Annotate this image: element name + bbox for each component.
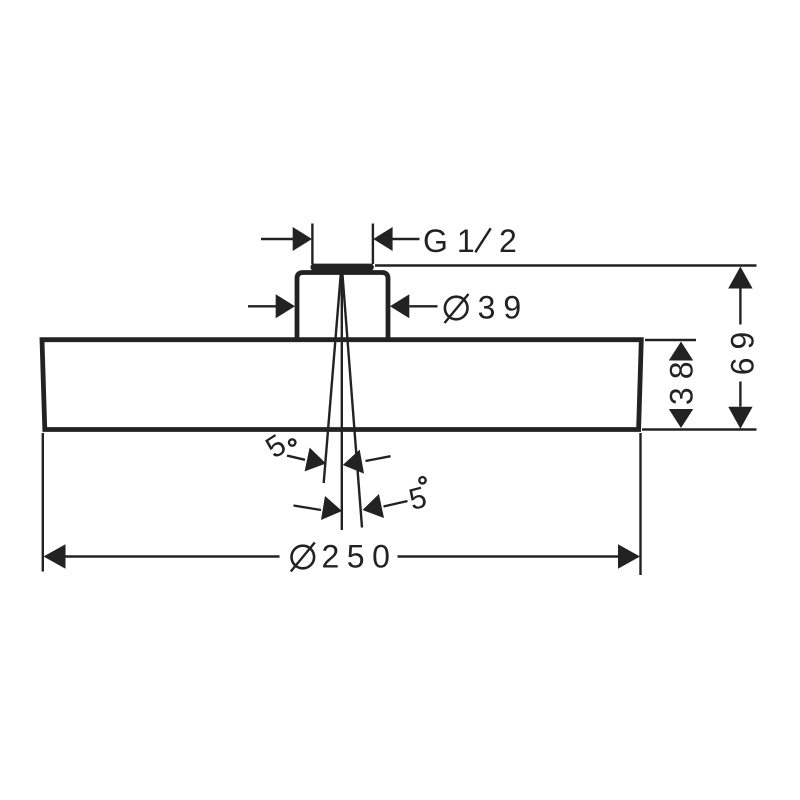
dia250 right arrow xyxy=(618,544,640,568)
svg-text:69: 69 xyxy=(724,324,760,376)
G1/2 right arrow xyxy=(373,227,392,251)
angle upper left arrow xyxy=(305,448,326,472)
label dia39: diameter symbol circle xyxy=(445,297,468,320)
angle lower left tail line xyxy=(294,506,322,511)
connector body xyxy=(297,273,388,342)
G1/2 right tail line xyxy=(393,238,420,240)
right spray line xyxy=(342,273,362,528)
69 top extension line xyxy=(375,264,757,266)
G1/2 left extension line xyxy=(311,224,313,265)
angle upper right tail line xyxy=(366,456,391,461)
svg-text:G1: G1 xyxy=(423,223,484,259)
69 bottom arrow xyxy=(728,407,752,429)
connector cap xyxy=(311,264,374,271)
G1/2 left arrow xyxy=(293,227,312,251)
svg-text:39: 39 xyxy=(478,290,530,326)
dia250 left extension line xyxy=(42,433,44,572)
label 5deg lower: degree circle xyxy=(419,477,425,483)
69 dimension line upper segment xyxy=(739,288,741,325)
svg-text:38: 38 xyxy=(664,354,700,406)
G1/2 left tail line xyxy=(261,238,294,240)
svg-text:250: 250 xyxy=(322,539,398,575)
label dia250: diameter symbol circle xyxy=(292,546,315,569)
38 bottom arrow xyxy=(669,409,693,428)
angle upper right arrow xyxy=(343,450,364,474)
angle lower right arrow xyxy=(363,494,385,518)
angle upper left tail line xyxy=(287,456,305,460)
dia39 right arrow xyxy=(390,294,409,318)
shower plate body xyxy=(42,340,641,430)
69 top arrow xyxy=(728,267,752,289)
angle lower right tail line xyxy=(384,501,408,507)
svg-text:2: 2 xyxy=(499,223,517,259)
label dia39: diameter symbol slash xyxy=(445,294,469,323)
left spray line xyxy=(324,273,341,484)
label dia250: diameter symbol slash xyxy=(291,543,315,572)
G1/2 right extension line xyxy=(372,224,374,265)
dia39 right tail line xyxy=(409,305,437,307)
label 5deg upper: degree circle xyxy=(289,439,295,445)
38 top extension line xyxy=(645,339,696,341)
dia39 left tail line xyxy=(248,305,277,307)
angle lower left arrow xyxy=(321,496,342,520)
dia250 dimension line right segment xyxy=(398,555,620,557)
dia39 left arrow xyxy=(276,294,295,318)
bottom right extension line xyxy=(642,428,757,430)
dia250 dimension line left segment xyxy=(65,555,280,557)
label G1/2: slash xyxy=(475,228,490,252)
69 dimension line lower segment xyxy=(739,382,741,407)
dia250 right extension line xyxy=(639,433,641,575)
38 top arrow xyxy=(669,342,693,361)
dia250 left arrow xyxy=(44,544,66,568)
centerline xyxy=(341,267,343,531)
